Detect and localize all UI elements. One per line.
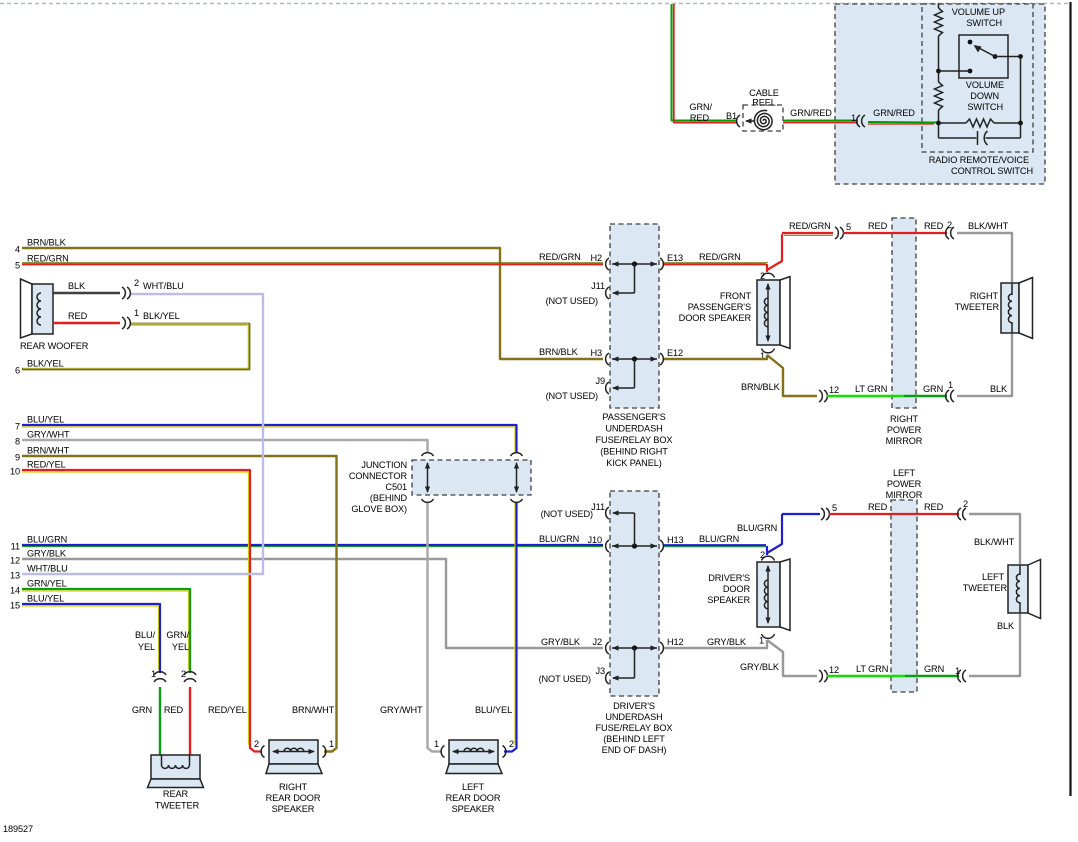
- svg-text:DOWN: DOWN: [970, 91, 999, 101]
- label RIGHT TWEETER: [955, 291, 1000, 312]
- front passenger speaker pin1 arc: [762, 349, 775, 353]
- rear tweeter coil curtain: [162, 755, 190, 768]
- wire GRN/RED conn1-switch: [868, 122, 937, 124]
- svg-text:2: 2: [181, 669, 186, 679]
- passenger fuse box: [610, 224, 659, 408]
- label pin2 front passenger: [760, 271, 765, 281]
- svg-text:189527: 189527: [3, 824, 33, 834]
- driver J2-H12 row: [606, 642, 664, 654]
- left power mirror box: [891, 500, 917, 692]
- node 11 stub label: [11, 535, 68, 552]
- label GRN/RED 3: [873, 108, 915, 118]
- label GRY/BLK right of H12: [707, 637, 747, 647]
- C501 pin arc bottom A: [422, 499, 434, 502]
- svg-text:H12: H12: [667, 637, 684, 647]
- svg-text:BLU/YEL: BLU/YEL: [27, 415, 64, 425]
- svg-text:BLK/WHT: BLK/WHT: [968, 221, 1009, 231]
- svg-text:FUSE/RELAY BOX: FUSE/RELAY BOX: [596, 435, 673, 445]
- svg-text:BRN/BLK: BRN/BLK: [27, 238, 67, 248]
- svg-text:11: 11: [11, 542, 20, 552]
- svg-text:BLU/GRN: BLU/GRN: [699, 534, 739, 544]
- label J11 driver: [591, 502, 605, 512]
- wire H13 BLU/GRN to speaker: [664, 545, 768, 555]
- label GRN rear tweeter: [132, 705, 152, 715]
- label RED rear tweeter: [164, 705, 184, 715]
- label pin1 driver: [759, 636, 764, 646]
- label GRN/RED 2: [790, 108, 832, 118]
- driver door speaker coil: [764, 580, 768, 609]
- svg-text:REAR WOOFER: REAR WOOFER: [20, 341, 89, 351]
- connector woofer pin1: [122, 317, 130, 329]
- svg-text:GRN/RED: GRN/RED: [873, 108, 915, 118]
- svg-text:POWER: POWER: [887, 425, 922, 435]
- svg-text:LT GRN: LT GRN: [855, 384, 887, 394]
- right rear speaker pin1 arc: [323, 746, 326, 758]
- label GRY/WHT col: [380, 705, 423, 715]
- svg-text:1: 1: [329, 739, 334, 749]
- svg-text:BRN/WHT: BRN/WHT: [27, 446, 70, 456]
- node 14 stub label: [10, 579, 67, 596]
- label GRN left: [924, 664, 944, 674]
- wire RED/GRN diag to conn5: [767, 233, 833, 270]
- wire RED left mirror: [829, 513, 959, 515]
- svg-text:SPEAKER: SPEAKER: [272, 804, 315, 814]
- wire 4 BRN/BLK to H3: [22, 248, 603, 359]
- svg-text:J10: J10: [587, 535, 602, 545]
- wire GRN/RED reel-conn1: [783, 121, 858, 123]
- label RED right mirror left: [868, 221, 888, 231]
- svg-text:14: 14: [10, 586, 20, 596]
- svg-text:1: 1: [851, 113, 856, 123]
- switch wiper blade: [974, 45, 996, 57]
- label J9: [595, 376, 605, 386]
- svg-text:H13: H13: [667, 535, 684, 545]
- front passenger speaker arrow: [765, 283, 770, 342]
- label pin 1: [851, 113, 856, 123]
- label pin1 left rear: [434, 739, 439, 749]
- svg-text:RIGHT: RIGHT: [970, 291, 999, 301]
- left rear door speaker coil: [464, 748, 484, 751]
- label E12: [667, 348, 683, 358]
- wire GRN rear tweeter: [159, 687, 161, 757]
- front passenger speaker coil: [764, 298, 768, 327]
- front passenger speaker SP2 pin2 arc: [762, 273, 775, 277]
- svg-text:GRY/BLK: GRY/BLK: [707, 637, 747, 647]
- label diagram number 189527: [3, 824, 33, 834]
- label J3: [595, 666, 605, 676]
- resistor R3: [966, 119, 994, 127]
- right rear door speaker SP7 body: [266, 740, 322, 774]
- right rear door speaker arrow: [272, 749, 315, 754]
- label pin2 right rear: [254, 739, 259, 749]
- label RED right mirror right: [924, 221, 944, 231]
- svg-text:5: 5: [15, 261, 20, 271]
- svg-text:1: 1: [134, 308, 139, 318]
- node right rail dot top: [1018, 54, 1023, 59]
- wire woofer RED: [53, 322, 120, 324]
- node 13 stub label: [10, 564, 68, 581]
- label 1 rear tweeter: [151, 669, 156, 679]
- right tweeter SP3 body: [1001, 278, 1033, 339]
- wire LT GRN left: [827, 675, 905, 677]
- left rear door speaker arrow: [452, 749, 495, 754]
- svg-text:MIRROR: MIRROR: [886, 490, 923, 500]
- svg-text:GRY/BLK: GRY/BLK: [541, 637, 581, 647]
- label J11: [591, 281, 605, 291]
- svg-text:BLU/GRN: BLU/GRN: [539, 534, 579, 544]
- wire 15 BLU/YEL: [22, 604, 160, 673]
- label H2: [590, 253, 602, 263]
- right power mirror box: [892, 218, 916, 408]
- label passenger fuse box: [596, 412, 673, 468]
- svg-text:BLK/WHT: BLK/WHT: [974, 537, 1015, 547]
- C501 arrow B: [514, 462, 519, 493]
- label BRN/WHT col: [292, 705, 335, 715]
- svg-text:TWEETER: TWEETER: [963, 583, 1008, 593]
- driver speaker pin1 arc: [762, 634, 775, 638]
- svg-text:KICK PANEL): KICK PANEL): [606, 458, 661, 468]
- svg-text:RED: RED: [924, 221, 944, 231]
- svg-text:H3: H3: [590, 348, 602, 358]
- svg-text:LT GRN: LT GRN: [856, 664, 888, 674]
- svg-text:UNDERDASH: UNDERDASH: [605, 712, 662, 722]
- wire RED rear tweeter: [189, 687, 191, 757]
- svg-text:2: 2: [509, 739, 514, 749]
- connector B1: [737, 115, 740, 127]
- svg-text:SWITCH: SWITCH: [967, 102, 1003, 112]
- svg-text:(NOT USED): (NOT USED): [541, 509, 593, 519]
- svg-text:DRIVER'S: DRIVER'S: [613, 701, 655, 711]
- svg-text:6: 6: [15, 366, 20, 376]
- driver door speaker SP4 body: [757, 559, 790, 631]
- wire 6 BLK/YEL loop: [22, 324, 249, 369]
- left tweeter SP5 body: [1008, 560, 1041, 619]
- node rail dot lower: [936, 121, 941, 126]
- driver door speaker arrow: [765, 565, 770, 624]
- label RADIO REMOTE VOICE CONTROL SWITCH: [929, 155, 1033, 176]
- wire BLU/GRN diag to conn5: [767, 514, 820, 553]
- svg-text:LEFT: LEFT: [893, 468, 916, 478]
- passenger J11 branch: [606, 264, 635, 299]
- node rail dot upper: [936, 69, 941, 74]
- label RED/GRN right of E13: [699, 252, 741, 262]
- node 8 stub label: [15, 430, 70, 447]
- svg-text:J9: J9: [595, 376, 605, 386]
- wire woofer BLK: [53, 292, 120, 294]
- wire H12 GRY/BLK to speaker: [664, 640, 767, 648]
- driver J11 branch: [606, 507, 635, 546]
- wire BLK left tweeter: [969, 614, 1020, 676]
- svg-text:BLK: BLK: [68, 281, 86, 291]
- connector 1 inline: [857, 115, 865, 127]
- wire 11 BLU/GRN to J10: [22, 545, 603, 547]
- svg-text:H2: H2: [590, 253, 602, 263]
- rear woofer SP1 body: [21, 279, 54, 338]
- connector 1 right tweeter: [946, 390, 954, 402]
- label LEFT REAR DOOR SPEAKER: [446, 782, 501, 814]
- label BLU/GRN upper: [737, 523, 777, 533]
- label BLU/YEL col: [135, 630, 156, 652]
- resistor R2 volume down: [935, 82, 943, 110]
- svg-text:RED/GRN: RED/GRN: [539, 252, 581, 262]
- svg-text:DRIVER'S: DRIVER'S: [708, 573, 750, 583]
- label H13: [667, 535, 684, 545]
- C501 pin arc top B: [511, 453, 523, 456]
- node 5 stub label: [15, 254, 69, 271]
- svg-text:GRN/: GRN/: [689, 102, 712, 112]
- label 12 right: [829, 385, 839, 395]
- svg-text:4: 4: [15, 245, 20, 255]
- label WHT/BLU at pin2: [143, 281, 184, 291]
- capacitor C2: [978, 131, 988, 145]
- connector 2 left tweeter: [958, 508, 966, 520]
- label NOT USED J3: [539, 674, 591, 684]
- svg-text:1: 1: [151, 669, 156, 679]
- wire BLK/WHT left: [969, 514, 1020, 564]
- wire middle row: [939, 122, 1021, 124]
- passenger H3-E12 row: [606, 353, 664, 365]
- connector 12 left: [819, 670, 827, 682]
- svg-text:J11: J11: [591, 502, 605, 512]
- passenger H2-E13 row: [606, 258, 664, 270]
- rear tweeter SP6 body: [148, 755, 204, 788]
- svg-text:BLU/GRN: BLU/GRN: [27, 535, 67, 545]
- svg-text:J3: J3: [595, 666, 605, 676]
- label pin1 woofer: [134, 308, 139, 318]
- node 9 stub label: [15, 446, 70, 463]
- connector 1 left tweeter: [958, 670, 966, 682]
- wire 5 RED/GRN to H2: [22, 263, 603, 265]
- label RIGHT REAR DOOR SPEAKER: [266, 782, 321, 814]
- svg-text:END OF DASH): END OF DASH): [602, 745, 667, 755]
- wire switch right rail: [1020, 57, 1022, 139]
- svg-text:E13: E13: [667, 253, 683, 263]
- svg-text:LEFT: LEFT: [982, 572, 1005, 582]
- svg-text:GRY/BLK: GRY/BLK: [740, 662, 780, 672]
- svg-text:5: 5: [846, 222, 851, 232]
- svg-text:2: 2: [760, 550, 765, 560]
- svg-text:B1: B1: [726, 111, 737, 121]
- label pin1 front passenger: [760, 351, 765, 361]
- svg-text:(BEHIND RIGHT: (BEHIND RIGHT: [600, 447, 668, 457]
- label driver fuse box: [596, 701, 673, 755]
- svg-text:DOOR SPEAKER: DOOR SPEAKER: [679, 313, 752, 323]
- svg-text:LEFT: LEFT: [462, 782, 485, 792]
- svg-text:MIRROR: MIRROR: [886, 436, 923, 446]
- label GRN right: [923, 384, 943, 394]
- svg-text:2: 2: [947, 220, 952, 230]
- label LEFT TWEETER: [963, 572, 1008, 593]
- wire GRN/RED feed: [672, 4, 738, 123]
- wire BLK right tweeter: [957, 334, 1012, 396]
- passenger J9 branch: [606, 359, 635, 394]
- wire 14 GRN/YEL: [22, 589, 190, 673]
- svg-text:REAR DOOR: REAR DOOR: [266, 793, 321, 803]
- svg-text:5: 5: [832, 503, 837, 513]
- svg-text:E12: E12: [667, 348, 683, 358]
- svg-text:RED: RED: [924, 502, 944, 512]
- node right rail dot bottom: [1018, 121, 1023, 126]
- label NOT USED J11 driver: [541, 509, 593, 519]
- wire LT GRN right: [827, 395, 904, 397]
- cable reel arrow: [745, 118, 754, 123]
- page top dashed border: [0, 3, 1070, 5]
- label pin1 right rear: [329, 739, 334, 749]
- label CABLE REEL: [749, 88, 779, 108]
- driver fuse box: [610, 491, 659, 696]
- svg-text:REAR: REAR: [163, 789, 189, 799]
- svg-text:12: 12: [829, 385, 839, 395]
- svg-text:YEL: YEL: [172, 642, 189, 652]
- switch contact dot B: [968, 69, 973, 74]
- label BLK/YEL at pin1: [143, 311, 180, 321]
- svg-text:SWITCH: SWITCH: [966, 18, 1002, 28]
- svg-text:GRN: GRN: [132, 705, 152, 715]
- label RED left mirror b: [924, 502, 944, 512]
- label GRN/RED feed: [689, 102, 712, 123]
- label DRIVERS DOOR SPEAKER: [707, 573, 750, 605]
- wire switch left rail: [938, 4, 940, 138]
- driver speaker pin2 arc: [762, 556, 775, 560]
- node 7 stub label: [15, 415, 64, 432]
- svg-text:BLU/: BLU/: [135, 630, 156, 640]
- label RED/YEL col: [208, 705, 247, 715]
- left tweeter coil: [1016, 565, 1020, 613]
- wire 8 GRY/WHT: [22, 440, 442, 752]
- svg-text:15: 15: [10, 601, 20, 611]
- resistor R1 volume up: [935, 8, 943, 36]
- label pin2 left rear: [509, 739, 514, 749]
- svg-text:GRY/BLK: GRY/BLK: [27, 549, 67, 559]
- junction connector C501 box: [412, 460, 531, 495]
- label LT GRN left: [856, 664, 888, 674]
- cable reel C1 box: [743, 105, 783, 131]
- label BLU/GRN left of J10: [539, 534, 579, 544]
- C501 pin arc top A: [422, 453, 434, 456]
- svg-text:PASSENGER'S: PASSENGER'S: [602, 412, 665, 422]
- label NOT USED J11: [546, 296, 598, 306]
- svg-text:9: 9: [15, 453, 20, 463]
- svg-text:TWEETER: TWEETER: [955, 302, 1000, 312]
- label 2 rear tweeter: [181, 669, 186, 679]
- svg-text:GRN/YEL: GRN/YEL: [27, 579, 67, 589]
- wire 9 BRN/WHT: [22, 456, 337, 752]
- svg-text:(BEHIND: (BEHIND: [370, 493, 408, 503]
- svg-text:1: 1: [434, 739, 439, 749]
- label 1 left tweeter: [955, 666, 960, 676]
- connector rear tweeter pin2: [184, 672, 196, 682]
- label GRY/BLK lower: [740, 662, 780, 672]
- svg-text:JUNCTION: JUNCTION: [361, 460, 407, 470]
- wire 12 GRY/BLK to J2: [22, 559, 603, 648]
- svg-text:2: 2: [254, 739, 259, 749]
- label REAR WOOFER: [20, 341, 89, 351]
- svg-text:J2: J2: [592, 637, 602, 647]
- left rear door speaker SP8 body: [446, 740, 502, 774]
- left rear speaker pin1 arc: [441, 746, 444, 758]
- svg-text:WHT/BLU: WHT/BLU: [27, 564, 68, 574]
- svg-text:PASSENGER'S: PASSENGER'S: [688, 302, 751, 312]
- page right border: [1069, 2, 1071, 796]
- svg-text:BLU/GRN: BLU/GRN: [737, 523, 777, 533]
- svg-text:GRN: GRN: [923, 384, 943, 394]
- svg-text:UNDERDASH: UNDERDASH: [605, 424, 662, 434]
- wire 13 WHT/BLU loop: [22, 294, 263, 574]
- svg-text:GRN: GRN: [924, 664, 944, 674]
- svg-text:BRN/BLK: BRN/BLK: [539, 347, 579, 357]
- svg-text:RED: RED: [164, 705, 184, 715]
- svg-text:10: 10: [10, 467, 20, 477]
- label pin2 driver: [760, 550, 765, 560]
- connector woofer pin2: [122, 287, 130, 299]
- svg-text:REAR DOOR: REAR DOOR: [446, 793, 501, 803]
- left rear speaker pin2 arc: [503, 746, 506, 758]
- svg-text:7: 7: [15, 422, 20, 432]
- label pin2 woofer: [134, 278, 139, 288]
- label RED left mirror a: [868, 502, 888, 512]
- label GRN/YEL col: [166, 630, 189, 652]
- svg-text:(NOT USED): (NOT USED): [546, 296, 598, 306]
- wire rail-contactB: [939, 70, 971, 72]
- wire GRY/BLK to conn12: [767, 640, 817, 676]
- svg-text:WHT/BLU: WHT/BLU: [143, 281, 184, 291]
- label RED woofer: [68, 311, 88, 321]
- wire GRN left: [905, 675, 959, 677]
- svg-text:1: 1: [759, 636, 764, 646]
- svg-text:J11: J11: [591, 281, 605, 291]
- svg-text:(NOT USED): (NOT USED): [539, 674, 591, 684]
- node 6 stub label: [15, 359, 64, 376]
- switch contact dot A: [968, 40, 973, 45]
- svg-text:GLOVE BOX): GLOVE BOX): [351, 504, 407, 514]
- svg-text:(BEHIND LEFT: (BEHIND LEFT: [603, 734, 665, 744]
- svg-text:2: 2: [134, 278, 139, 288]
- svg-text:GRY/WHT: GRY/WHT: [380, 705, 423, 715]
- wire BRN/BLK to conn12: [767, 355, 817, 396]
- svg-text:BLU/YEL: BLU/YEL: [475, 705, 512, 715]
- svg-text:BLU/YEL: BLU/YEL: [27, 594, 64, 604]
- svg-text:12: 12: [829, 665, 839, 675]
- label 5 right: [846, 222, 851, 232]
- label E13: [667, 253, 683, 263]
- right rear door speaker coil: [284, 748, 304, 751]
- label BLU/YEL col2: [475, 705, 512, 715]
- volume switch box: [959, 35, 1008, 78]
- wire GRN right: [904, 395, 947, 397]
- label BLK/WHT right: [968, 221, 1009, 231]
- svg-text:1: 1: [948, 380, 953, 390]
- svg-text:RED/YEL: RED/YEL: [208, 705, 247, 715]
- wire RED through right mirror: [843, 232, 947, 234]
- wire wiper-right rail: [995, 56, 1021, 58]
- svg-text:RED: RED: [690, 113, 710, 123]
- connector 2 right tweeter: [946, 227, 954, 239]
- label VOLUME UP SWITCH: [952, 7, 1005, 28]
- wire 7 BLU/YEL: [22, 425, 517, 752]
- svg-text:REEL: REEL: [752, 98, 776, 108]
- label RED/GRN left of H2: [539, 252, 581, 262]
- label J10: [587, 535, 602, 545]
- connector rear tweeter pin1: [154, 672, 166, 682]
- svg-text:BLK/YEL: BLK/YEL: [143, 311, 180, 321]
- svg-text:RED/GRN: RED/GRN: [27, 254, 69, 264]
- svg-text:GRN/: GRN/: [166, 630, 189, 640]
- label FRONT PASSENGERS DOOR SPEAKER: [679, 291, 752, 323]
- svg-text:VOLUME: VOLUME: [966, 80, 1004, 90]
- label REAR TWEETER: [155, 789, 200, 811]
- C501 arrow A: [425, 462, 430, 493]
- label 2 left tweeter: [963, 499, 968, 509]
